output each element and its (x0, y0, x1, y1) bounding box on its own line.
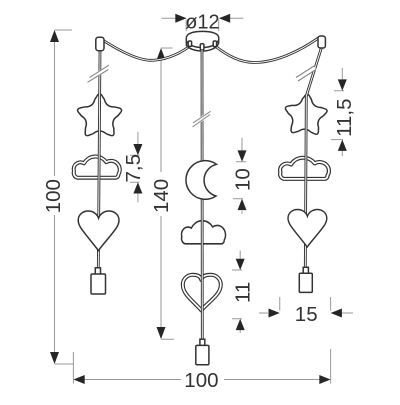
left break mark (88, 67, 109, 80)
left star (78, 94, 122, 136)
center heart (double outline) (183, 275, 221, 311)
svg-text:100: 100 (42, 179, 65, 213)
left sag wire from canopy (103, 40, 190, 60)
dimension 7,5 (122, 132, 145, 203)
svg-text:10: 10 (231, 168, 254, 191)
svg-text:140: 140 (150, 179, 173, 213)
right connector (318, 36, 325, 48)
center socket (196, 339, 209, 364)
dimension ø12 top (162, 11, 244, 33)
left socket (91, 268, 106, 294)
left heart (78, 211, 119, 251)
moon (186, 161, 217, 200)
dimension 10 (231, 138, 254, 214)
svg-text:11,5: 11,5 (333, 99, 356, 137)
dimension 15 (259, 297, 353, 326)
dimension 100 left vertical (42, 30, 74, 364)
right break mark (297, 68, 315, 80)
dimension 100 bottom (73, 349, 330, 392)
right heart (288, 209, 327, 247)
dimension 11 (232, 251, 255, 333)
left connector (96, 37, 104, 51)
right sag wire from canopy (215, 37, 320, 62)
dimension 140 vertical (150, 48, 174, 339)
center drop wire (201, 50, 204, 339)
svg-text:7,5: 7,5 (122, 154, 145, 183)
canopy nub right (213, 41, 216, 47)
svg-text:100: 100 (184, 369, 218, 392)
right socket (299, 267, 312, 292)
right cloud (double outline) (280, 158, 329, 179)
canopy nub center (200, 44, 204, 50)
canopy body (186, 31, 219, 51)
dimension 11,5 (331, 68, 356, 156)
center cloud (single) (181, 221, 225, 244)
canopy nub left (188, 41, 191, 46)
right drop wire (305, 48, 321, 268)
left cloud (double outline) (74, 156, 120, 177)
svg-text:15: 15 (295, 303, 318, 326)
center break mark (193, 113, 211, 125)
right star (285, 94, 327, 134)
left drop wire (98, 50, 100, 270)
svg-text:ø12: ø12 (185, 11, 219, 33)
svg-text:11: 11 (232, 282, 255, 303)
